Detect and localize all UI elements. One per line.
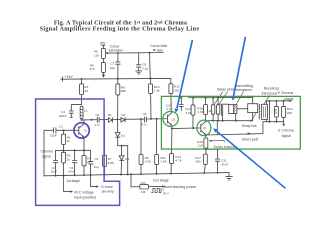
- transistor Q6 symbol: [197, 121, 206, 138]
- +15V supply rail: [61, 77, 171, 80]
- blue arrow 2: [213, 128, 285, 188]
- emitter bias node wire: [56, 149, 91, 151]
- input shunt wire: [43, 130, 45, 176]
- svg-text:4.7n: 4.7n: [94, 123, 100, 127]
- svg-text:1k: 1k: [67, 139, 71, 143]
- receiving label leader: [264, 95, 270, 104]
- wire colour killer junction dots: [117, 52, 119, 54]
- resistor R4: [82, 156, 86, 166]
- resistor R12 column: [170, 78, 172, 83]
- resistor R2: [62, 152, 66, 163]
- node wire below D3: [118, 146, 128, 175]
- svg-text:1st stage: 1st stage: [66, 179, 80, 183]
- capacitor C4 branch: [69, 105, 81, 118]
- resistor R16: [204, 138, 208, 148]
- svg-text:L1: L1: [84, 108, 88, 112]
- U chroma output arrow: [283, 122, 285, 125]
- crystal coupling bars: [221, 104, 229, 120]
- transistor Q1 symbol: [74, 120, 84, 150]
- blanking pulse arrow: [162, 185, 165, 187]
- svg-text:1.5K: 1.5K: [197, 110, 204, 114]
- C9 ground symbol: [136, 71, 142, 74]
- transmitting label leader: [237, 92, 244, 104]
- resistor R11 column: [156, 119, 158, 155]
- Q6 emitter node: [205, 134, 207, 136]
- direct path wire: [206, 122, 263, 135]
- R10 top feed from killer line: [149, 53, 152, 79]
- capacitor C9 branch: [137, 53, 141, 71]
- svg-text:110: 110: [198, 144, 203, 148]
- capacitor C6 series: [97, 117, 108, 122]
- burst takeoff leader: [91, 175, 97, 187]
- ground rail: [44, 173, 229, 176]
- svg-text:6.8K: 6.8K: [108, 161, 115, 165]
- ACC input leader: [64, 176, 71, 192]
- receiving transducer: [262, 104, 268, 119]
- transmit to delay wire: [237, 108, 248, 110]
- svg-text:12K: 12K: [141, 190, 146, 194]
- svg-text:Signal Amplifiers Feeding into: Signal Amplifiers Feeding into the Chrom…: [40, 26, 200, 32]
- diode D2: [121, 118, 125, 123]
- resistor R3: [80, 84, 84, 95]
- svg-text:D1: D1: [108, 113, 112, 117]
- svg-text:4.7n: 4.7n: [166, 107, 172, 111]
- 2nd stage top wire: [188, 97, 253, 99]
- svg-text:4.7n: 4.7n: [141, 123, 147, 127]
- R16 bottom node: [205, 148, 207, 150]
- delay phase trimmer column: [217, 98, 219, 105]
- svg-text:2K: 2K: [87, 160, 91, 164]
- rail junction dots: [55, 78, 219, 177]
- svg-text:Q6: Q6: [203, 126, 207, 130]
- resistor 4% column: [212, 98, 214, 105]
- svg-text:2%: 2%: [274, 109, 278, 114]
- svg-text:R15: R15: [141, 181, 147, 185]
- svg-text:Chroma: Chroma: [41, 149, 53, 153]
- receiver top lead: [266, 101, 268, 104]
- capacitor C10 branch: [179, 98, 183, 111]
- pulse waveform glyph: [151, 188, 161, 192]
- delay phase label leaders: [214, 92, 227, 104]
- svg-text:4%: 4%: [208, 109, 213, 113]
- svg-text:470: 470: [89, 67, 94, 71]
- resistor R10 column: [149, 84, 153, 94]
- capacitor C1: [54, 128, 75, 133]
- resistor R8 column: [116, 84, 120, 95]
- resistor R6: [101, 62, 105, 72]
- svg-text:260: 260: [287, 111, 292, 115]
- svg-text:47nF: 47nF: [68, 170, 75, 174]
- svg-text:12k: 12k: [94, 53, 99, 57]
- svg-text:Q1: Q1: [84, 129, 88, 133]
- ground symbol right end: [226, 173, 233, 180]
- svg-text:input (positive): input (positive): [74, 196, 96, 200]
- svg-text:10μF: 10μF: [51, 170, 58, 174]
- svg-text:signal: signal: [282, 134, 291, 138]
- svg-text:Q5: Q5: [172, 117, 176, 121]
- diode D3 branch: [115, 119, 120, 145]
- blue arrow 3: [231, 37, 245, 101]
- svg-text:U Chroma: U Chroma: [278, 128, 294, 132]
- svg-text:D3: D3: [121, 134, 125, 138]
- base wire Q5 to Q6: [172, 127, 197, 130]
- resistor R9 column: [140, 119, 142, 154]
- svg-text:68K: 68K: [121, 89, 127, 93]
- svg-text:C8: C8: [143, 112, 147, 116]
- green circle Q6: [197, 120, 211, 136]
- svg-text:1.3k: 1.3k: [154, 89, 160, 93]
- delay line label leader: [251, 113, 256, 122]
- capacitor C5 branch: [89, 150, 93, 175]
- delay line box: [248, 104, 258, 113]
- chroma input wire: [44, 129, 53, 131]
- capacitor C11 branch: [215, 149, 219, 173]
- delay balance leader: [211, 140, 225, 142]
- svg-text:390: 390: [195, 160, 200, 164]
- receiver bottom lead: [266, 119, 268, 121]
- diode D1: [108, 118, 112, 123]
- inductor L1: [80, 106, 83, 119]
- svg-text:+15V: +15V: [64, 75, 73, 79]
- blue arrow 1: [175, 40, 193, 113]
- svg-text:30 V: 30 V: [163, 192, 169, 196]
- Q5 emitter node: [171, 128, 173, 130]
- svg-text:Delay line: Delay line: [242, 124, 257, 128]
- resistor R17: [203, 154, 207, 164]
- svg-text:82: 82: [85, 89, 89, 93]
- svg-text:pre-amp: pre-amp: [102, 190, 114, 194]
- resistor R3 column: [81, 79, 83, 84]
- capacitor C7 branch: [116, 53, 120, 79]
- green box delay section: [161, 96, 300, 149]
- capacitor C8 series: [145, 117, 163, 122]
- shunt wire column: [268, 101, 270, 122]
- green circle Q5: [163, 111, 178, 126]
- Q6 collector node: [205, 120, 207, 122]
- +15V terminal tick: [62, 77, 64, 81]
- svg-text:10μ: 10μ: [94, 165, 99, 169]
- transistor Q5 symbol: [163, 113, 172, 129]
- resistor R18 column: [205, 98, 207, 105]
- resistor 2% column: [275, 101, 277, 106]
- svg-text:5.6K: 5.6K: [145, 160, 152, 164]
- collector node junction: [81, 119, 83, 121]
- resistor R1: [63, 130, 65, 134]
- svg-text:bias: bias: [157, 49, 163, 53]
- capacitor C3 branch: [72, 150, 76, 175]
- R6 arrow to rail: [102, 72, 104, 74]
- svg-text:100nF: 100nF: [58, 114, 67, 118]
- svg-text:Colour killer: Colour killer: [150, 44, 168, 48]
- svg-text:C1: C1: [59, 124, 63, 128]
- svg-text:Direct path: Direct path: [242, 137, 259, 141]
- svg-text:1.8K: 1.8K: [160, 160, 167, 164]
- svg-text:transducer: transducer: [236, 88, 253, 92]
- svg-text:2.2μ: 2.2μ: [142, 67, 148, 71]
- svg-text:33μF: 33μF: [50, 134, 57, 138]
- burst blanking feed: [131, 174, 140, 186]
- U chroma lower wire: [263, 121, 284, 123]
- base node junction: [63, 129, 65, 131]
- svg-text:2nd Stage: 2nd Stage: [153, 179, 169, 183]
- svg-text:47nF: 47nF: [221, 163, 228, 167]
- wire R5 to R6: [102, 58, 104, 62]
- capacitor C2 branch: [53, 150, 57, 175]
- svg-text:C8: C8: [95, 113, 99, 117]
- svg-text:Burst blanking pulses: Burst blanking pulses: [164, 185, 197, 189]
- diode D4 branch: [119, 146, 124, 175]
- svg-text:C5: C5: [95, 157, 99, 161]
- svg-text:V Chroma: V Chroma: [278, 91, 294, 95]
- R5 wiper arrow: [106, 52, 108, 54]
- resistor R7 column: [104, 120, 106, 156]
- signal wire Q1 collector to C6: [82, 119, 97, 121]
- collector output wire: [206, 120, 253, 122]
- svg-text:1k: 1k: [67, 157, 71, 161]
- blue circle Q1: [74, 123, 89, 138]
- svg-text:To burst: To burst: [101, 185, 113, 189]
- svg-text:Delay phase: Delay phase: [217, 88, 237, 92]
- svg-text:4.7K: 4.7K: [175, 159, 182, 163]
- transmitting transducer: [229, 105, 237, 114]
- svg-text:signal: signal: [284, 97, 293, 101]
- 25V terminal: [102, 45, 105, 48]
- direct path tie: [216, 121, 218, 135]
- svg-text:310: 310: [174, 89, 179, 93]
- emitter bypass wire: [206, 148, 218, 150]
- blue box 1st stage: [36, 99, 120, 205]
- colour saturation wire: [108, 52, 163, 55]
- resistor R14 column: [192, 98, 194, 105]
- resistor R19 column: [283, 101, 285, 107]
- V chroma output wire: [267, 100, 290, 102]
- svg-text:signal: signal: [42, 154, 51, 158]
- svg-text:transducer: transducer: [262, 92, 279, 96]
- R3 to node wire: [81, 95, 83, 105]
- svg-text:10μ: 10μ: [110, 66, 115, 70]
- resistor R15: [140, 185, 149, 189]
- svg-text:25V: 25V: [100, 42, 107, 46]
- svg-text:D2: D2: [121, 113, 125, 117]
- svg-text:saturation: saturation: [109, 48, 124, 52]
- svg-text:Receiving: Receiving: [264, 87, 279, 91]
- resistor R13 column: [171, 129, 173, 154]
- svg-text:ACC Voltage: ACC Voltage: [74, 190, 94, 194]
- svg-text:D4: D4: [125, 157, 129, 161]
- svg-text:1.9K: 1.9K: [185, 111, 192, 115]
- potentiometer R5: [101, 48, 105, 58]
